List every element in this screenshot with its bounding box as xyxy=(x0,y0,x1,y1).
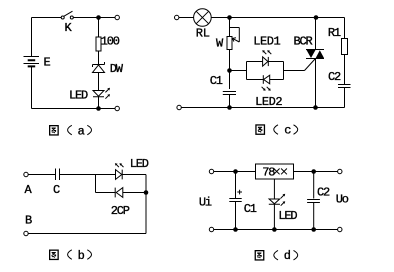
svg-text:LED2: LED2 xyxy=(255,95,282,109)
svg-text:LED: LED xyxy=(130,157,149,171)
svg-text:Ui: Ui xyxy=(199,195,212,209)
svg-text:a: a xyxy=(78,125,85,139)
svg-text:RL: RL xyxy=(196,27,210,41)
svg-text:R1: R1 xyxy=(328,26,341,40)
svg-text:B: B xyxy=(25,213,32,227)
svg-text:d: d xyxy=(284,249,291,263)
svg-text:C2: C2 xyxy=(317,186,330,200)
svg-text:LED1: LED1 xyxy=(253,35,280,49)
svg-text:DW: DW xyxy=(110,62,124,76)
svg-text:LED: LED xyxy=(69,89,88,103)
svg-text:C1: C1 xyxy=(210,74,223,88)
svg-text:c: c xyxy=(284,124,291,138)
svg-text:78: 78 xyxy=(262,165,275,179)
svg-text:Uo: Uo xyxy=(336,192,349,206)
svg-text:C: C xyxy=(53,183,60,197)
svg-text:C2: C2 xyxy=(328,70,341,84)
svg-text:b: b xyxy=(78,249,85,263)
svg-text:100: 100 xyxy=(101,35,120,49)
svg-text:C1: C1 xyxy=(244,202,257,216)
svg-text:BCR: BCR xyxy=(294,34,313,48)
svg-text:LED: LED xyxy=(278,209,297,223)
svg-text:2CP: 2CP xyxy=(111,204,130,218)
svg-text:E: E xyxy=(44,56,51,70)
